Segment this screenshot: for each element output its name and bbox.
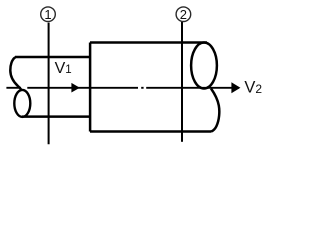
- section mark circle 2: [176, 7, 191, 22]
- small pipe top edge: [15, 56, 90, 59]
- big pipe opening ellipse: [191, 43, 217, 89]
- svg-text:1: 1: [44, 7, 51, 22]
- big pipe bottom edge: [90, 130, 211, 133]
- section line 2: [181, 22, 183, 142]
- centerline: [6, 87, 239, 89]
- V1 arrow head: [71, 83, 79, 93]
- svg-text:2: 2: [180, 7, 187, 22]
- big pipe left edge: [89, 43, 92, 132]
- svg-text:V2: V2: [244, 79, 262, 97]
- small pipe bottom edge: [22, 115, 90, 118]
- V2 arrow head: [231, 82, 240, 93]
- section mark circle 1: [41, 7, 56, 22]
- small pipe opening ellipse: [14, 90, 30, 117]
- small pipe left cap outer curve: [10, 57, 21, 90]
- section line 1: [48, 23, 50, 145]
- big pipe right cap outer curve: [211, 89, 219, 132]
- big pipe top edge: [90, 41, 207, 44]
